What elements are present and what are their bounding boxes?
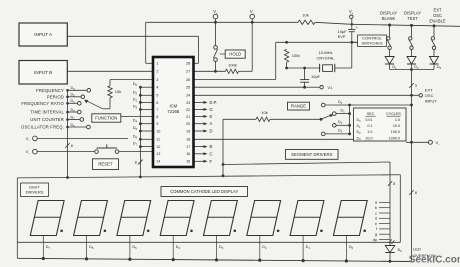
svg-text:FUNCTION: FUNCTION [95, 116, 117, 121]
svg-text:OSC: OSC [433, 13, 442, 18]
svg-text:E: E [210, 114, 213, 119]
svg-text:26: 26 [186, 78, 190, 82]
svg-text:PERIOD: PERIOD [47, 94, 64, 99]
svg-text:27: 27 [186, 70, 190, 74]
svg-text:10pF: 10pF [311, 74, 321, 79]
svg-text:10.0: 10.0 [365, 136, 372, 140]
svg-text:RANGE: RANGE [291, 104, 306, 109]
svg-text:10.0: 10.0 [393, 124, 400, 128]
svg-text:6: 6 [156, 101, 158, 105]
svg-text:24: 24 [186, 94, 190, 98]
svg-text:21: 21 [186, 115, 190, 119]
svg-text:D.P.: D.P. [210, 100, 217, 105]
svg-text:10k: 10k [115, 89, 121, 94]
svg-text:11: 11 [156, 138, 160, 142]
svg-text:DISPLAY: DISPLAY [380, 10, 397, 15]
svg-text:TEST: TEST [407, 16, 418, 21]
svg-text:CYCLES: CYCLES [386, 112, 401, 116]
svg-text:ENABLE: ENABLE [429, 18, 445, 23]
svg-text:ICM: ICM [169, 104, 177, 109]
svg-text:OSCILLATOR FREQ.: OSCILLATOR FREQ. [21, 125, 64, 130]
svg-text:10M: 10M [292, 53, 300, 58]
svg-text:HOLD: HOLD [229, 52, 241, 57]
svg-text:16: 16 [186, 152, 190, 156]
svg-text:10-MHz: 10-MHz [318, 50, 332, 55]
svg-text:UNIT COUNTER: UNIT COUNTER [30, 117, 64, 122]
svg-text:1: 1 [156, 62, 158, 66]
svg-text:D: D [210, 129, 213, 134]
svg-text:B: B [210, 144, 213, 149]
svg-text:4: 4 [156, 86, 158, 90]
svg-text:G: G [210, 107, 213, 112]
svg-text:RESET: RESET [98, 162, 113, 167]
svg-text:BLANK: BLANK [382, 16, 396, 21]
svg-text:FREQUENCY: FREQUENCY [36, 88, 64, 93]
svg-text:13: 13 [156, 152, 160, 156]
svg-text:SEC: SEC [367, 112, 375, 116]
svg-text:0.1: 0.1 [367, 124, 372, 128]
svg-text:OSC: OSC [425, 93, 434, 98]
svg-text:LED: LED [413, 247, 421, 252]
svg-text:2: 2 [156, 70, 158, 74]
svg-text:10k: 10k [261, 110, 267, 115]
svg-text:INPUT A: INPUT A [34, 32, 53, 37]
svg-text:SEGMENT DRIVERS: SEGMENT DRIVERS [291, 152, 333, 157]
svg-text:8: 8 [415, 191, 417, 195]
svg-text:5: 5 [156, 94, 158, 98]
svg-text:10k: 10k [302, 13, 308, 18]
svg-text:0.01: 0.01 [365, 118, 372, 122]
svg-text:100k: 100k [228, 63, 237, 68]
svg-text:INPUT: INPUT [425, 99, 438, 104]
svg-text:23: 23 [186, 101, 190, 105]
svg-text:8: 8 [71, 144, 73, 148]
svg-text:28: 28 [186, 62, 190, 66]
svg-text:12: 12 [156, 145, 160, 149]
svg-text:A: A [210, 121, 213, 126]
svg-text:100.0: 100.0 [391, 130, 400, 134]
svg-text:8: 8 [393, 182, 395, 186]
svg-text:COMMON CATHODE LED DISPLAY: COMMON CATHODE LED DISPLAY [170, 189, 238, 194]
svg-text:EXT: EXT [434, 7, 442, 12]
svg-text:7216B: 7216B [167, 109, 179, 114]
svg-text:SeekIC.com: SeekIC.com [409, 254, 460, 265]
svg-text:9: 9 [156, 122, 158, 126]
svg-text:DRIVERS: DRIVERS [26, 190, 44, 195]
svg-text:10: 10 [156, 129, 160, 133]
svg-text:C: C [210, 151, 213, 156]
svg-text:20: 20 [186, 122, 190, 126]
svg-text:3: 3 [156, 78, 158, 82]
svg-text:14: 14 [156, 160, 160, 164]
svg-text:3: 3 [415, 84, 417, 88]
svg-text:d: d [375, 217, 377, 221]
svg-text:SWITCHES: SWITCHES [361, 41, 382, 46]
svg-text:22: 22 [186, 108, 190, 112]
svg-text:+: + [356, 26, 358, 30]
svg-text:8: 8 [135, 161, 137, 165]
svg-text:DISPLAY: DISPLAY [404, 10, 421, 15]
svg-text:1.0: 1.0 [367, 130, 372, 134]
svg-text:7: 7 [156, 108, 158, 112]
svg-text:19: 19 [186, 129, 190, 133]
svg-text:8: 8 [156, 115, 158, 119]
svg-text:EVP: EVP [338, 34, 346, 39]
svg-text:25: 25 [186, 86, 190, 90]
svg-text:CRYSTAL: CRYSTAL [316, 56, 335, 61]
svg-text:c: c [375, 211, 377, 215]
svg-text:b: b [375, 206, 377, 210]
svg-text:FREQUENCY RATIO: FREQUENCY RATIO [21, 101, 64, 106]
svg-text:1000.0: 1000.0 [389, 136, 400, 140]
svg-text:1.0: 1.0 [395, 118, 400, 122]
svg-text:17: 17 [186, 145, 190, 149]
svg-text:EXT: EXT [425, 88, 433, 93]
svg-text:g: g [375, 233, 377, 237]
svg-text:INPUT B: INPUT B [34, 70, 52, 75]
svg-text:V1: V1 [328, 85, 334, 90]
svg-text:TIME INTERVAL: TIME INTERVAL [30, 110, 64, 115]
svg-text:18: 18 [186, 138, 190, 142]
svg-text:e: e [375, 222, 377, 226]
svg-text:dp: dp [373, 238, 377, 242]
svg-text:15: 15 [186, 160, 190, 164]
